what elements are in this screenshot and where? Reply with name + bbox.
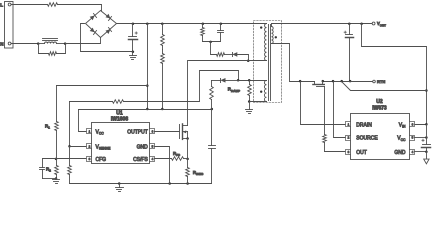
clamp diode	[232, 52, 237, 57]
U1 pin 4	[150, 157, 155, 162]
wire VCC row to pin1	[79, 110, 87, 132]
svg-text:CS/FS: CS/FS	[133, 157, 148, 163]
resistor R1	[55, 86, 59, 159]
junction VIN rail diag row	[425, 89, 428, 92]
aux diode (VCC)	[220, 78, 225, 83]
junction rail GND pin	[168, 182, 171, 185]
wire choke right stub	[57, 43, 66, 45]
startup resistor RST2	[161, 50, 165, 110]
junction VCC cap top	[425, 136, 428, 139]
wire vsense row left	[70, 101, 113, 103]
resistor across choke	[49, 52, 57, 56]
resistor RDAMP	[248, 81, 252, 102]
U2 pin 5	[410, 136, 415, 141]
capacitor C1 (bulk)	[129, 24, 138, 52]
fuse F1	[48, 3, 58, 7]
label VOUT	[377, 21, 386, 27]
svg-text:DRAIN: DRAIN	[356, 122, 372, 128]
terminal VOUT	[372, 22, 375, 25]
junction rail RSNS	[186, 182, 189, 185]
junction bus at C1	[132, 22, 135, 25]
junction aux node	[237, 79, 240, 82]
label RTN	[377, 79, 385, 84]
label CSFS pin	[133, 157, 148, 163]
svg-text:OUTPUT: OUTPUT	[127, 129, 148, 135]
svg-text:RDAMP: RDAMP	[228, 87, 240, 93]
svg-text:R1: R1	[45, 123, 50, 129]
svg-text:iW1608: iW1608	[111, 116, 128, 122]
U2 pin 1	[346, 122, 351, 127]
svg-text:CFG: CFG	[96, 157, 107, 163]
label L	[0, 2, 3, 7]
label R2	[46, 167, 51, 173]
label U1	[116, 110, 123, 116]
label VCC pin	[96, 129, 105, 135]
label VCC pin U2	[397, 136, 406, 142]
junction diag	[340, 80, 343, 83]
wire pin2 row	[70, 146, 87, 148]
startup resistor RST1	[161, 24, 165, 50]
wire snubber bottom row	[203, 41, 221, 43]
wire fuse to bridge top	[58, 5, 102, 11]
junction R1 row tap	[146, 84, 149, 87]
wire DRAIN sense	[301, 82, 346, 125]
U1 pin 1	[87, 129, 92, 134]
clamp resistor	[217, 53, 233, 57]
svg-text:RFS: RFS	[173, 151, 180, 157]
junction vsense pin2	[68, 145, 71, 148]
junction bus at startup resistors	[161, 22, 164, 25]
junction Q1 source	[186, 137, 189, 140]
U2 pin 2	[346, 136, 351, 141]
wire pin5 to VCC cap	[415, 137, 427, 139]
common-mode choke L1	[45, 42, 57, 44]
wire choke to bridge	[66, 38, 101, 44]
IC U2 iW673 box	[351, 114, 410, 160]
snubber resistor	[201, 24, 205, 42]
svg-text:OUT: OUT	[356, 150, 367, 156]
wire VOUT to VIN	[362, 24, 427, 125]
junction C1 bottom	[132, 51, 135, 54]
wire damping resistor left	[39, 44, 49, 54]
U1 pin 3	[87, 157, 92, 162]
junction choke right	[64, 42, 67, 45]
wire vsense rail	[69, 102, 71, 147]
transistor Q1 (primary MOSFET)	[180, 61, 188, 140]
label VIN pin	[399, 122, 406, 128]
wire drain row	[189, 60, 267, 62]
capacitor COUT	[344, 24, 353, 81]
transformer aux winding	[264, 81, 266, 102]
junction source sense	[332, 80, 335, 83]
wire aux diode cathode	[212, 80, 221, 82]
junction bus at snubber R	[202, 22, 205, 25]
wire snubber to clamp	[211, 42, 217, 55]
label iW673	[372, 105, 387, 111]
junction VIN rail pin6	[425, 123, 428, 126]
label N	[0, 41, 4, 46]
junction RDAMP top	[248, 79, 251, 82]
wire VCC row	[79, 109, 212, 111]
wire output row	[272, 23, 373, 25]
svg-text:GND: GND	[394, 150, 406, 156]
junction R1 R2	[55, 158, 58, 161]
svg-text:R2: R2	[46, 167, 51, 173]
svg-text:iW673: iW673	[372, 105, 387, 111]
wire RTN row	[323, 81, 373, 83]
transistor Q2 (SR MOSFET)	[313, 82, 325, 87]
wire Q1 source down	[187, 139, 189, 159]
resistor R2	[55, 159, 59, 179]
junction R2 bottom	[55, 177, 58, 180]
wire secondary to SR drain	[272, 44, 315, 82]
resistor Q2 gate	[323, 87, 327, 152]
ground at R2	[53, 179, 60, 184]
U1 pin 5	[150, 144, 155, 149]
U2 pin 4	[410, 150, 415, 155]
resistor RFS	[155, 157, 188, 161]
svg-text:N: N	[0, 41, 4, 46]
junction SR source	[322, 80, 325, 83]
label RSNS	[193, 170, 203, 176]
wire aux bottom row	[250, 101, 267, 103]
phase dot secondary	[275, 36, 277, 38]
capacitor VCC U2	[422, 125, 431, 152]
wire vsense row right	[124, 71, 239, 102]
label CFG pin	[96, 157, 107, 163]
label OUTPUT pin	[127, 129, 148, 135]
label RDAMP	[228, 87, 240, 93]
wire L to fuse	[12, 4, 48, 6]
junction bus at startup wire	[146, 22, 149, 25]
junction drain sense	[299, 80, 302, 83]
wire CFG row	[43, 158, 87, 160]
wire gate resistor to OUT pin	[325, 151, 346, 153]
capacitor VCC	[209, 110, 216, 184]
junction VCC at aux chain	[211, 108, 214, 111]
junction CS node	[186, 158, 189, 161]
wire R1 row	[57, 85, 148, 87]
svg-text:RTN: RTN	[377, 79, 385, 84]
transformer core	[269, 25, 271, 101]
wire aux diode to node	[226, 80, 239, 82]
IC U1 iW1608 box	[92, 123, 150, 164]
svg-text:L: L	[0, 2, 3, 7]
wire RTN to VCC row diagonal	[342, 82, 427, 91]
capacitor across R2	[40, 159, 57, 179]
wire clamp diode to drain	[238, 55, 249, 61]
wire N to choke	[12, 43, 39, 45]
junction clamp at drain row	[247, 59, 250, 62]
label SOURCE pin	[356, 136, 378, 142]
wire primary ground rail	[70, 183, 212, 185]
wire choke left stub	[39, 43, 45, 45]
wire bridge right to HV bus	[117, 23, 133, 25]
terminal RTN	[373, 80, 376, 83]
label U2	[376, 99, 383, 105]
label RFS	[173, 151, 180, 157]
wire bus to VCC row	[147, 24, 149, 110]
wire SOURCE sense	[334, 82, 346, 138]
wire OUTPUT to gate	[155, 131, 180, 133]
label DRAIN pin	[356, 122, 372, 128]
snubber capacitor	[218, 24, 224, 42]
wire pin4 to ground	[415, 151, 427, 153]
junction rail ground	[118, 182, 121, 185]
ground primary rail	[116, 184, 124, 192]
label R1	[45, 123, 50, 129]
label VSENSE pin	[96, 144, 112, 150]
wire aux top to winding	[239, 80, 267, 82]
label OUT pin	[356, 150, 367, 156]
svg-text:VOUT: VOUT	[377, 21, 386, 27]
phase dot aux	[260, 91, 262, 93]
bridge rectifier BR1	[86, 11, 117, 38]
connector J1 (AC input)	[5, 2, 14, 49]
resistor aux to VCC	[210, 81, 214, 110]
junction COUT top	[348, 22, 351, 25]
junction VIN drop	[360, 22, 363, 25]
svg-text:GND: GND	[137, 144, 149, 150]
svg-text:U2: U2	[376, 99, 383, 105]
U1 pin 2	[87, 144, 92, 149]
U1 pin 6	[150, 129, 155, 134]
resistor vsense lower	[68, 147, 72, 184]
transformer secondary winding	[272, 24, 274, 44]
ground U2 (chassis)	[424, 152, 429, 164]
resistor RSNS	[186, 159, 190, 184]
wire damping resistor right	[57, 44, 66, 54]
junction COUT bottom	[349, 80, 352, 83]
junction startup at VCC row	[161, 108, 164, 111]
svg-text:RISNS: RISNS	[193, 170, 203, 176]
label iW1608	[111, 116, 128, 122]
U2 pin 3	[346, 150, 351, 155]
vsense series resistor	[113, 100, 124, 104]
ground at RDAMP	[246, 102, 253, 114]
junction RDAMP bottom	[248, 100, 251, 103]
wire bridge left to ground rail	[81, 24, 133, 52]
ground at C1	[130, 52, 137, 60]
U2 pin 6	[410, 122, 415, 127]
label GND pin U1	[137, 144, 149, 150]
transformer primary winding	[264, 24, 266, 61]
junction snubber mid	[209, 41, 212, 44]
phase dot primary	[260, 26, 262, 28]
junction startup wire at VCC row	[146, 108, 149, 111]
transformer T1 dashed box	[254, 21, 282, 103]
svg-text:SOURCE: SOURCE	[356, 136, 378, 142]
label GND pin U2	[394, 150, 406, 156]
junction choke left	[37, 42, 40, 45]
choke core lines	[43, 39, 58, 41]
wire HV bus	[133, 23, 267, 25]
wire GND pin to rail	[155, 147, 170, 184]
junction bus at snubber C	[220, 22, 223, 25]
junction GND U2	[425, 150, 428, 153]
